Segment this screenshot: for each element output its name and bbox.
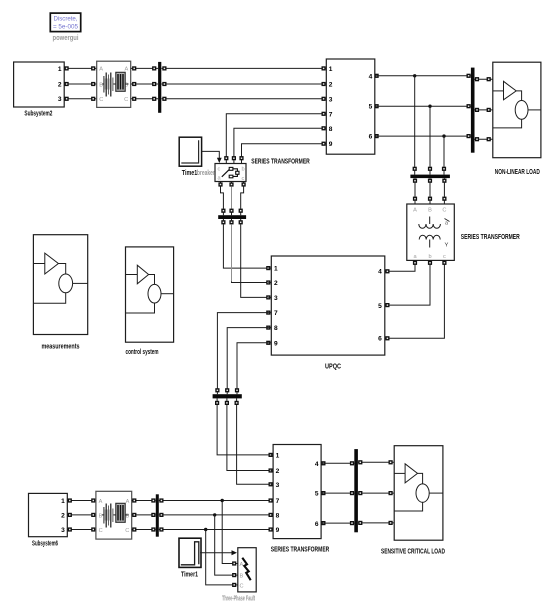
svg-text:B: B xyxy=(126,513,130,519)
wire Subsystem6.1 to transformer T2 A xyxy=(67,498,96,502)
wire Subsystem6.2 to transformer T2 B xyxy=(67,513,96,517)
wire busbar B2 to UPQC.1 xyxy=(221,219,271,270)
svg-text:C: C xyxy=(125,528,129,534)
svg-text:B: B xyxy=(99,82,103,88)
wire transformer T3.a to UPQC.4 xyxy=(385,260,417,273)
svg-text:6: 6 xyxy=(369,134,373,141)
svg-text:powergui: powergui xyxy=(53,35,79,42)
svg-text:measurements: measurements xyxy=(42,344,80,351)
wire busbar B7 to SENSITIVE CRITICAL LOAD.3 xyxy=(358,521,394,525)
svg-text:4: 4 xyxy=(369,73,373,80)
svg-text:Three-Phase Fault: Three-Phase Fault xyxy=(222,596,255,603)
svg-text:9: 9 xyxy=(276,527,280,534)
svg-text:4: 4 xyxy=(378,269,382,276)
wire UPQC.9 to busbar B3 xyxy=(235,341,271,395)
transformer T3 winding icon xyxy=(419,217,450,249)
svg-text:4: 4 xyxy=(315,461,319,468)
block Time1 (timer) xyxy=(179,137,201,166)
svg-text:7: 7 xyxy=(329,111,333,118)
svg-text:SENSITIVE CRITICAL LOAD: SENSITIVE CRITICAL LOAD xyxy=(381,549,445,556)
transformer T1 (three-phase) xyxy=(97,61,131,107)
wire SERIES TRANSFORMER(bottom).4 to busbar B7 xyxy=(321,461,354,465)
svg-text:B: B xyxy=(99,513,103,519)
wire Subsystem6.3 to transformer T2 C xyxy=(67,527,96,531)
wire UPQC.8 to busbar B3 xyxy=(225,326,271,395)
svg-text:3: 3 xyxy=(274,295,278,302)
wire busbar B5 to transformer T3 C xyxy=(442,178,446,204)
svg-text:B: B xyxy=(428,208,432,214)
wire SERIES TRANSFORMER(bottom).6 to busbar B7 xyxy=(321,521,354,525)
wire tap row8 to Three-Phase Fault B xyxy=(215,515,238,577)
wire busbar B2 to UPQC.2 (gray vertical) xyxy=(229,219,271,285)
svg-text:A: A xyxy=(126,499,130,505)
wire transformer T1 outputs to busbar B1 xyxy=(131,66,158,101)
wire tap phase C down to busbar B5 xyxy=(442,136,446,175)
SENSITIVE CRITICAL LOAD icon (triangle + meter) xyxy=(394,464,443,511)
wire busbar B2 to UPQC.3 xyxy=(239,219,272,300)
svg-text:3: 3 xyxy=(276,482,280,489)
svg-text:7: 7 xyxy=(276,498,280,505)
block Three-Phase Fault xyxy=(238,548,256,592)
svg-text:a: a xyxy=(445,221,448,227)
svg-text:c: c xyxy=(242,176,245,182)
wire SERIES TRANSFORMER(top).4 to busbar B4 xyxy=(375,74,471,78)
svg-text:2: 2 xyxy=(276,468,280,475)
wire Subsystem2.1 to transformer A xyxy=(64,66,97,70)
junction node on phase C row xyxy=(442,134,445,137)
wire breaker.a to busbar B2 (jog right) xyxy=(218,182,225,216)
block SERIES TRANSFORMER (top) xyxy=(326,59,375,154)
wire Timer1 to Three-Phase Fault control (arrow) xyxy=(200,550,237,555)
svg-text:1: 1 xyxy=(274,266,278,273)
wire busbar B7 to SENSITIVE CRITICAL LOAD.2 xyxy=(358,491,394,495)
svg-text:7: 7 xyxy=(274,310,278,317)
wire busbar B6 to SERIES TRANSFORMER(bottom).8 xyxy=(159,513,273,517)
svg-text:8: 8 xyxy=(274,325,278,332)
transformer T2 (three-phase) xyxy=(96,491,132,539)
wire Subsystem2.2 to transformer B xyxy=(64,82,97,86)
svg-text:2: 2 xyxy=(61,512,65,519)
svg-text:5: 5 xyxy=(378,303,382,310)
busbar B7 (vertical, before SENSITIVE CRITICAL LOAD) xyxy=(354,449,358,532)
svg-text:Subsystem6: Subsystem6 xyxy=(32,541,58,548)
wire busbar B3 to SERIES TRANSFORMER(bottom).1 xyxy=(215,398,273,457)
block UPQC xyxy=(271,256,385,355)
wire UPQC.7 to busbar B3 xyxy=(215,311,271,395)
svg-text:c: c xyxy=(218,167,221,173)
svg-text:8: 8 xyxy=(276,512,280,519)
svg-text:Y: Y xyxy=(445,243,449,249)
wire busbar B1 to SERIES TRANSFORMER inputs 1,2,3 xyxy=(162,66,327,101)
svg-text:Subsystem2: Subsystem2 xyxy=(24,111,52,118)
control system icon (triangle + meter) xyxy=(126,265,174,313)
wire busbar B3 to SERIES TRANSFORMER(bottom).2 xyxy=(225,398,273,472)
svg-text:1: 1 xyxy=(276,452,280,459)
svg-text:B: B xyxy=(240,574,244,580)
breaker switch icon xyxy=(222,167,239,177)
NON-LINEAR LOAD icon (gain triangle + meter ellipse) xyxy=(493,81,541,128)
wire SERIES TRANSFORMER.7 to breaker xyxy=(224,112,326,164)
wire busbar B6 to SERIES TRANSFORMER(bottom).9 xyxy=(159,527,273,531)
wire SERIES TRANSFORMER(top).5 to busbar B4 xyxy=(375,104,471,108)
wire busbar B7 to SENSITIVE CRITICAL LOAD.1 xyxy=(358,460,394,464)
wire tap row9 to Three-Phase Fault C xyxy=(206,530,238,588)
wire busbar B4 to NON-LINEAR LOAD.3 xyxy=(475,137,493,141)
Three-Phase Fault lightning icon xyxy=(242,558,250,580)
junction node on phase B row xyxy=(428,105,431,108)
busbar B4 (vertical, before NON-LINEAR LOAD) xyxy=(471,68,475,153)
subsystem control system xyxy=(126,247,174,342)
subsystem Subsystem6 xyxy=(29,493,68,536)
svg-text:C: C xyxy=(240,583,244,589)
wire transformer T3.b to UPQC.5 xyxy=(385,260,432,307)
svg-text:C: C xyxy=(99,528,103,534)
svg-text:C: C xyxy=(99,97,103,103)
powergui block xyxy=(50,13,80,32)
svg-text:9: 9 xyxy=(274,340,278,347)
svg-text:2: 2 xyxy=(58,81,62,88)
svg-text:SERIES TRANSFORMER: SERIES TRANSFORMER xyxy=(461,234,520,241)
busbar B6 (vertical, bottom-left) xyxy=(156,494,159,536)
svg-text:6: 6 xyxy=(378,336,382,343)
wire busbar B5 to transformer T3 B xyxy=(428,178,432,204)
wire busbar B5 to transformer T3 A xyxy=(413,178,417,204)
svg-text:1: 1 xyxy=(329,66,333,73)
junction node on bottom row 9 xyxy=(204,528,207,531)
wire busbar B6 to SERIES TRANSFORMER(bottom).7 xyxy=(159,498,273,502)
wire busbar B4 to NON-LINEAR LOAD.1 xyxy=(475,77,493,81)
block SENSITIVE CRITICAL LOAD xyxy=(394,446,443,541)
wire busbar B3 to SERIES TRANSFORMER(bottom).3 xyxy=(235,398,274,486)
svg-text:C: C xyxy=(442,208,446,214)
svg-text:breaker: breaker xyxy=(197,170,215,177)
busbar B1 (vertical, top-left) xyxy=(158,62,161,113)
svg-text:control system: control system xyxy=(126,349,159,356)
svg-text:A: A xyxy=(413,208,417,214)
svg-text:1: 1 xyxy=(58,66,62,73)
svg-text:5: 5 xyxy=(369,104,373,111)
svg-text:2: 2 xyxy=(329,82,333,89)
wire SERIES TRANSFORMER.9 to breaker xyxy=(239,142,326,164)
svg-text:8: 8 xyxy=(329,126,333,133)
wire transformer T3.c to UPQC.6 xyxy=(385,260,447,340)
svg-text:Timer1: Timer1 xyxy=(181,572,198,579)
svg-text:Discrete,: Discrete, xyxy=(54,16,78,23)
wire breaker.c to busbar B2 (jog left) xyxy=(239,182,246,216)
transformer T2 winding icon xyxy=(102,503,129,527)
junction node on bottom row 8 xyxy=(213,513,216,516)
busbar B5 (horizontal, above series transformer right) xyxy=(410,175,450,179)
wire Subsystem2.3 to transformer C xyxy=(64,97,97,101)
svg-text:b: b xyxy=(428,254,431,260)
block Timer1 (step timer) xyxy=(179,538,201,567)
svg-text:C: C xyxy=(124,97,128,103)
svg-text:Time1: Time1 xyxy=(182,170,198,177)
subsystem measurements xyxy=(33,235,87,335)
junction node on bottom row 7 xyxy=(221,499,224,502)
svg-text:= 5e-005: = 5e-005 xyxy=(53,24,79,31)
svg-text:SERIES TRANSFORMER: SERIES TRANSFORMER xyxy=(271,547,330,554)
wire tap row7 to Three-Phase Fault A xyxy=(222,501,238,566)
block NON-LINEAR LOAD xyxy=(493,62,541,158)
breaker block xyxy=(215,164,246,183)
wire breaker.b to busbar B2 (straight, gray) xyxy=(229,182,233,216)
svg-text:A: A xyxy=(240,562,244,568)
svg-text:A: A xyxy=(99,499,103,505)
transformer T3 (series injection, right) xyxy=(407,204,455,260)
wire Time1 to breaker control (arrow) xyxy=(202,151,222,163)
svg-text:3: 3 xyxy=(329,96,333,103)
wire transformer T2 outputs to busbar B6 xyxy=(132,498,156,531)
wire SERIES TRANSFORMER(top).6 to busbar B4 xyxy=(375,134,471,138)
subsystem Subsystem2 xyxy=(14,62,65,107)
wire SERIES TRANSFORMER(bottom).5 to busbar B7 xyxy=(321,491,354,495)
wire tap phase B down to busbar B5 xyxy=(428,106,432,174)
wire tap phase A down to busbar B5 xyxy=(413,76,417,175)
svg-text:1: 1 xyxy=(61,498,65,505)
busbar B3 (horizontal, below UPQC) xyxy=(213,394,242,398)
block SERIES TRANSFORMER (bottom) xyxy=(273,445,321,539)
junction node on phase A row xyxy=(413,74,416,77)
wire SERIES TRANSFORMER.8 to breaker xyxy=(232,126,327,163)
wire busbar B4 to NON-LINEAR LOAD.2 xyxy=(475,108,493,112)
svg-text:A: A xyxy=(99,67,103,73)
svg-text:6: 6 xyxy=(315,521,319,528)
busbar B2 (horizontal, below breaker) xyxy=(218,215,246,219)
transformer T1 winding icon xyxy=(102,72,128,96)
svg-text:NON-LINEAR LOAD: NON-LINEAR LOAD xyxy=(495,169,540,176)
svg-text:SERIES TRANSFORMER: SERIES TRANSFORMER xyxy=(251,159,310,166)
svg-text:5: 5 xyxy=(315,491,319,498)
svg-text:UPQC: UPQC xyxy=(325,364,341,371)
svg-text:3: 3 xyxy=(58,96,62,103)
svg-text:2: 2 xyxy=(274,280,278,287)
measurements icon (scope triangle + meter) xyxy=(33,253,87,303)
svg-text:3: 3 xyxy=(61,527,65,534)
svg-text:c: c xyxy=(443,254,446,260)
svg-text:b: b xyxy=(242,167,245,173)
svg-text:9: 9 xyxy=(329,141,333,148)
